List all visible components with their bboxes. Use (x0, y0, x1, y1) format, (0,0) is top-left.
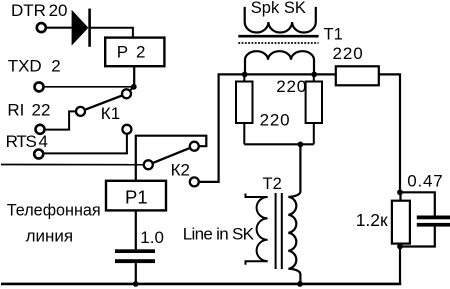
wire right branch to bottom rail (399, 247, 401, 284)
wire telephone line (1, 164, 144, 166)
wire resistor bottoms rail (244, 143, 313, 145)
resistor R3 220 (series) (336, 66, 379, 85)
svg-text:P: P (117, 43, 128, 62)
node left 220 top (242, 72, 248, 78)
wire RI to K1 (45, 111, 76, 129)
diode D1 (72, 9, 90, 47)
capacitor C1 1.0 (115, 249, 155, 263)
svg-text:P1: P1 (125, 186, 148, 207)
node right 220 top (311, 72, 317, 78)
node TXD/P2/K1 junction (131, 84, 137, 90)
switch K1 (76, 87, 134, 116)
svg-text:линия: линия (26, 227, 74, 246)
contact of K2 (to RTS) (122, 125, 131, 134)
wire P1 to capacitor (135, 210, 137, 249)
terminal RI pin 22 (36, 125, 45, 134)
switch K2 (144, 142, 199, 187)
terminal RTS pin 4 (34, 150, 43, 159)
transformer T2 secondary winding (288, 144, 300, 284)
svg-text:DTR: DTR (11, 1, 46, 20)
relay coil P2 (105, 38, 164, 67)
wire K2 lower contact to top rail (199, 74, 245, 181)
node T2 top (298, 142, 304, 148)
svg-text:220: 220 (260, 110, 291, 129)
node T2 bottom rail (297, 281, 303, 287)
svg-text:20: 20 (49, 1, 68, 20)
wire DTR to diode (44, 27, 72, 29)
svg-text:Line in SK: Line in SK (183, 224, 255, 243)
wire RTS to K2 upper contact (43, 134, 127, 154)
capacitor C2 0.47 (400, 192, 450, 246)
svg-text:T2: T2 (263, 175, 282, 193)
transformer T2 core (276, 193, 282, 269)
transformer T2 primary winding (line) (246, 194, 268, 265)
svg-text:T1: T1 (324, 25, 343, 43)
svg-text:1.2к: 1.2к (356, 210, 388, 230)
wire bottom rail (1, 283, 401, 286)
svg-text:220: 220 (276, 77, 307, 96)
wire top rail (245, 73, 336, 75)
svg-text:Телефонная: Телефонная (7, 201, 101, 219)
svg-text:4: 4 (39, 132, 48, 151)
terminal DTR pin 20 (37, 23, 46, 32)
svg-text:220: 220 (333, 44, 364, 63)
resistor R2 220 (right) (306, 74, 322, 144)
transformer T1 secondary winding (speaker) (245, 7, 316, 33)
svg-text:1.0: 1.0 (140, 228, 164, 247)
svg-text:TXD: TXD (8, 57, 42, 76)
wire P2 to node (133, 66, 135, 87)
resistor R1 220 (left) (236, 74, 253, 144)
wire K2 upper contact to P1 (136, 136, 207, 181)
relay coil P1 (106, 181, 166, 211)
wire diode to P2 (90, 28, 133, 38)
svg-text:К1: К1 (101, 104, 120, 123)
svg-text:RTS: RTS (6, 132, 37, 151)
transformer T1 core (238, 36, 318, 43)
wire R3 to right branch (379, 74, 400, 192)
node capacitor/bottom rail (133, 281, 139, 287)
svg-text:2: 2 (136, 43, 145, 62)
node 1.2k top (397, 189, 403, 195)
svg-text:2: 2 (51, 57, 60, 76)
resistor R4 1.2k (392, 192, 410, 246)
svg-text:Spk SK: Spk SK (251, 0, 306, 17)
terminal TXD pin 2 (35, 82, 44, 91)
transformer T1 primary winding (245, 51, 314, 74)
wire TXD to node (44, 86, 134, 88)
node 1.2k bottom (397, 244, 403, 250)
svg-text:22: 22 (32, 100, 51, 119)
wire capacitor to bottom rail (135, 263, 137, 284)
svg-text:RI: RI (7, 100, 24, 119)
svg-text:К2: К2 (171, 161, 190, 180)
svg-text:0.47: 0.47 (407, 172, 443, 191)
